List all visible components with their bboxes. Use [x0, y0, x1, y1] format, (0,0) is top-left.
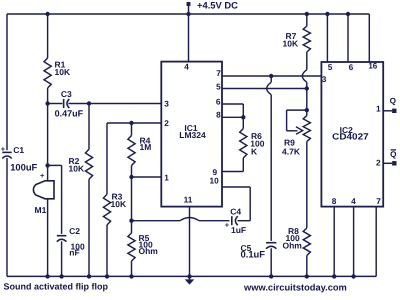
svg-text:3: 3 [164, 98, 169, 108]
svg-text:6: 6 [216, 96, 221, 106]
svg-text:LM324: LM324 [179, 130, 206, 140]
svg-text:Sound activated flip flop: Sound activated flip flop [4, 282, 109, 292]
svg-text:7: 7 [376, 196, 381, 206]
svg-text:10K: 10K [55, 67, 71, 77]
svg-text:+4.5V DC: +4.5V DC [197, 0, 238, 10]
svg-text:10: 10 [209, 176, 219, 186]
svg-text:K: K [251, 146, 258, 156]
svg-text:1: 1 [164, 173, 169, 183]
svg-text:C3: C3 [61, 89, 72, 99]
svg-text:Ohm: Ohm [139, 246, 159, 256]
svg-text:2: 2 [376, 158, 381, 168]
svg-text:10K: 10K [283, 39, 299, 49]
svg-text:CD4027: CD4027 [332, 132, 369, 142]
svg-text:8: 8 [332, 196, 337, 206]
svg-text:10K: 10K [69, 163, 85, 173]
svg-text:5: 5 [216, 82, 221, 92]
svg-text:2: 2 [164, 118, 169, 128]
svg-text:1M: 1M [140, 142, 152, 152]
svg-text:+: + [40, 171, 45, 180]
svg-text:8: 8 [216, 110, 221, 120]
svg-text:11: 11 [184, 194, 193, 204]
svg-text:Ohm: Ohm [283, 240, 303, 250]
svg-text:1uF: 1uF [231, 225, 246, 235]
svg-text:100uF: 100uF [10, 161, 37, 172]
svg-text:1: 1 [376, 103, 381, 113]
svg-text:3: 3 [322, 74, 327, 84]
svg-text:+: + [225, 220, 230, 229]
svg-text:16: 16 [368, 62, 377, 71]
svg-text:Q: Q [390, 97, 397, 106]
svg-text:5: 5 [328, 62, 333, 72]
svg-text:0.1uF: 0.1uF [241, 248, 266, 259]
svg-text:4: 4 [351, 196, 356, 206]
svg-text:4: 4 [184, 62, 189, 72]
svg-text:+: + [1, 144, 6, 153]
svg-text:10K: 10K [111, 199, 127, 209]
svg-text:C2: C2 [69, 226, 80, 236]
svg-text:6: 6 [349, 62, 354, 72]
svg-text:nF: nF [69, 247, 79, 257]
svg-text:4.7K: 4.7K [282, 147, 301, 157]
svg-text:Q: Q [390, 150, 397, 159]
svg-text:www.circuitstoday.com: www.circuitstoday.com [243, 283, 347, 293]
svg-text:0.47uF: 0.47uF [55, 109, 84, 119]
svg-text:7: 7 [216, 68, 221, 78]
svg-text:C4: C4 [230, 207, 241, 217]
svg-text:M1: M1 [35, 205, 47, 215]
svg-text:C1: C1 [13, 145, 24, 155]
